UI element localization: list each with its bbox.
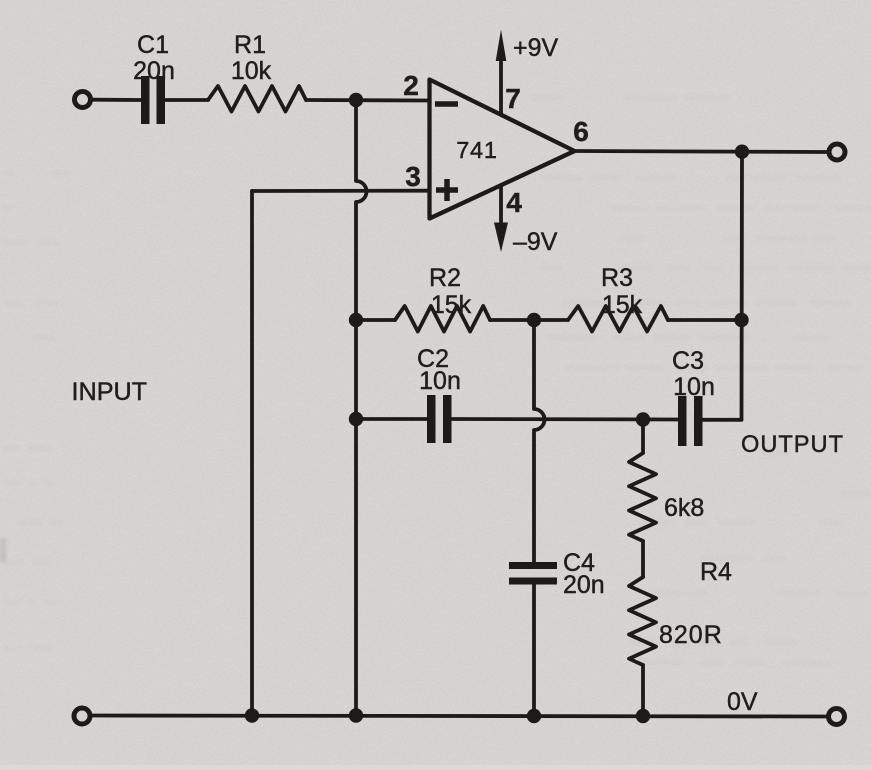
node A junction	[349, 93, 363, 107]
svg-text:7: 7	[505, 83, 521, 114]
capacitor C1	[133, 31, 175, 124]
wire C2 to C3 (under hop)	[452, 417, 679, 421]
op-amp U1 741	[430, 80, 575, 219]
junction rail / R4	[636, 709, 650, 723]
0V rail terminal right	[829, 709, 845, 725]
svg-text:6k8: 6k8	[664, 494, 704, 522]
svg-text:4: 4	[506, 187, 522, 218]
wire input to C1	[93, 98, 141, 102]
svg-text:15k: 15k	[431, 291, 472, 319]
svg-text:R2: R2	[429, 264, 461, 292]
wire node A vertical to 0V rail	[354, 320, 358, 716]
input terminal	[75, 92, 91, 108]
svg-text:2: 2	[403, 70, 419, 101]
wire R1 to op-amp pin 2	[306, 98, 429, 102]
svg-text:R1: R1	[234, 31, 266, 59]
junction rail / left vertical	[245, 708, 259, 722]
svg-text:741: 741	[456, 137, 498, 163]
junction rail / C4	[527, 709, 541, 723]
capacitor C4 20n	[509, 549, 605, 599]
wire node A to R2	[356, 318, 395, 322]
svg-text:10k: 10k	[231, 57, 272, 85]
svg-text:15k: 15k	[602, 291, 643, 319]
junction node A / C2 row	[349, 412, 363, 426]
svg-text:–9V: –9V	[513, 228, 558, 256]
wire node A down (hops over pin-3 wire)	[356, 100, 367, 320]
output junction	[735, 145, 749, 159]
junction R3 / output vertical	[734, 313, 748, 327]
wire C4 to 0V rail	[532, 585, 536, 717]
svg-text:3: 3	[405, 161, 421, 192]
capacitor C3 10n	[672, 347, 715, 446]
junction rail / node A vertical	[349, 708, 363, 722]
output terminal	[829, 144, 845, 160]
wire left vertical to 0V rail	[250, 191, 254, 716]
svg-text:OUTPUT: OUTPUT	[741, 432, 844, 458]
wire op-amp output to output terminal	[575, 151, 828, 152]
wire junction to C2	[356, 417, 427, 421]
svg-text:+9V: +9V	[513, 34, 559, 62]
(decorative bleed-through, unlabeled content below is faint texture)	[0, 95, 871, 666]
wire mid vertical down (hops over C2 row)	[534, 320, 545, 562]
svg-text:INPUT: INPUT	[72, 378, 148, 406]
resistor R4 upper 6k8	[629, 453, 704, 541]
capacitor C2 10n	[417, 345, 461, 443]
svg-text:C3: C3	[672, 347, 704, 375]
mid junction R2/R3	[527, 313, 541, 327]
wire R3 to output vertical	[668, 318, 742, 322]
-9V supply arrow (pin 4)	[494, 186, 558, 257]
0V rail terminal left	[74, 708, 90, 724]
wire junction down to R4	[641, 420, 645, 454]
svg-text:20n: 20n	[133, 57, 175, 85]
wire C1 to R1	[165, 98, 208, 102]
svg-text:10n: 10n	[673, 373, 715, 401]
+9V supply arrow (pin 7)	[496, 30, 559, 115]
wire between 6k8 and 820R	[641, 541, 645, 577]
svg-text:C1: C1	[137, 31, 169, 59]
wire output vertical down to C3 row	[740, 152, 744, 420]
wire C3 to output vertical	[703, 418, 742, 422]
wire pin 3 to left vertical	[252, 189, 429, 193]
svg-text:10n: 10n	[419, 367, 461, 395]
svg-text:R4: R4	[700, 558, 732, 586]
svg-text:6: 6	[573, 116, 589, 147]
junction at node A / R2 row	[349, 313, 363, 327]
wire R2 to mid node	[490, 318, 568, 322]
0V rail wire	[93, 716, 827, 717]
svg-text:0V: 0V	[727, 688, 758, 716]
resistor R3 15k	[568, 264, 668, 332]
resistor R4 lower 820R	[629, 577, 723, 665]
junction C2-C3 / R4	[636, 412, 650, 426]
svg-text:R3: R3	[601, 264, 633, 292]
svg-text:820R: 820R	[659, 621, 723, 649]
resistor R1 10k	[208, 31, 306, 112]
svg-text:20n: 20n	[563, 571, 605, 599]
resistor R2 15k	[395, 264, 490, 332]
wire 820R to 0V rail	[641, 665, 645, 716]
